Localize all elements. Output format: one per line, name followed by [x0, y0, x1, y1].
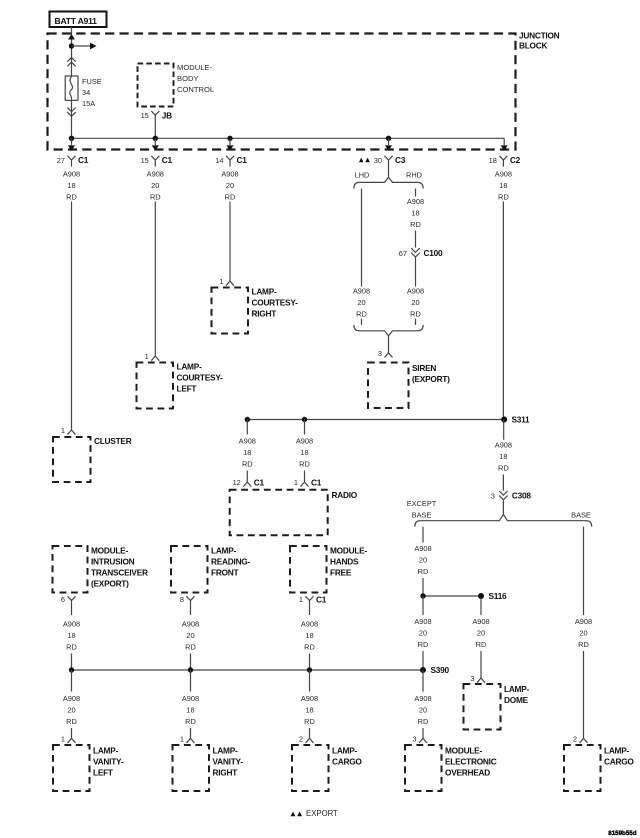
- svg-text:C1: C1: [316, 595, 327, 605]
- svg-text:S311: S311: [512, 415, 531, 425]
- svg-text:ELECTRONIC: ELECTRONIC: [445, 757, 497, 767]
- svg-text:RHD: RHD: [406, 171, 422, 180]
- svg-text:BASE: BASE: [571, 510, 591, 519]
- svg-text:18: 18: [300, 448, 308, 457]
- svg-text:RD: RD: [304, 717, 315, 726]
- svg-text:RD: RD: [66, 717, 77, 726]
- svg-text:RD: RD: [476, 640, 487, 649]
- svg-text:LAMP-: LAMP-: [93, 746, 119, 756]
- svg-text:MODULE-: MODULE-: [445, 746, 482, 756]
- svg-text:RD: RD: [418, 567, 429, 576]
- svg-text:LEFT: LEFT: [93, 768, 113, 778]
- svg-text:12: 12: [233, 478, 241, 487]
- svg-text:HANDS: HANDS: [330, 557, 359, 567]
- svg-text:FREE: FREE: [330, 568, 352, 578]
- svg-text:A908: A908: [414, 544, 431, 553]
- svg-text:LAMP-: LAMP-: [252, 287, 278, 297]
- svg-text:18: 18: [67, 181, 75, 190]
- svg-text:A908: A908: [63, 170, 80, 179]
- svg-text:RD: RD: [498, 193, 509, 202]
- svg-text:A908: A908: [414, 694, 431, 703]
- svg-text:RIGHT: RIGHT: [252, 309, 277, 319]
- svg-text:BODY: BODY: [177, 74, 199, 83]
- svg-text:1: 1: [219, 277, 223, 286]
- svg-text:18: 18: [411, 209, 419, 218]
- svg-text:A908: A908: [63, 694, 80, 703]
- svg-text:2: 2: [299, 735, 303, 744]
- svg-text:3: 3: [412, 735, 416, 744]
- svg-text:C1: C1: [78, 155, 89, 165]
- svg-text:1: 1: [299, 595, 303, 604]
- svg-text:20: 20: [411, 298, 419, 307]
- svg-text:CARGO: CARGO: [332, 757, 362, 767]
- svg-text:15: 15: [141, 111, 149, 120]
- svg-text:20: 20: [419, 706, 427, 715]
- svg-text:COURTESY-: COURTESY-: [177, 373, 224, 383]
- svg-text:A908: A908: [495, 441, 512, 450]
- svg-text:RIGHT: RIGHT: [213, 768, 238, 778]
- svg-text:A908: A908: [495, 170, 512, 179]
- svg-text:15A: 15A: [82, 99, 95, 108]
- svg-text:TRANSCEIVER: TRANSCEIVER: [91, 568, 148, 578]
- svg-text:OVERHEAD: OVERHEAD: [445, 768, 490, 778]
- svg-text:A908: A908: [182, 694, 199, 703]
- svg-text:A908: A908: [239, 437, 256, 446]
- svg-text:MODULE-: MODULE-: [177, 63, 212, 72]
- svg-text:FRONT: FRONT: [211, 568, 239, 578]
- svg-text:8: 8: [180, 595, 184, 604]
- svg-text:A908: A908: [472, 617, 489, 626]
- svg-text:30: 30: [374, 156, 382, 165]
- svg-text:S390: S390: [431, 665, 450, 675]
- svg-text:1: 1: [294, 478, 298, 487]
- svg-text:1: 1: [145, 352, 149, 361]
- svg-text:15: 15: [141, 156, 149, 165]
- svg-text:VANITY-: VANITY-: [93, 757, 124, 767]
- svg-text:(EXPORT): (EXPORT): [91, 579, 129, 589]
- svg-text:MODULE-: MODULE-: [330, 546, 367, 556]
- svg-text:EXPORT: EXPORT: [306, 809, 338, 818]
- svg-text:LAMP-: LAMP-: [211, 546, 237, 556]
- svg-text:RD: RD: [225, 193, 236, 202]
- svg-text:EXCEPT: EXCEPT: [407, 499, 437, 508]
- svg-text:S116: S116: [489, 591, 508, 601]
- svg-text:1: 1: [180, 735, 184, 744]
- svg-text:18: 18: [489, 156, 497, 165]
- svg-text:READING-: READING-: [211, 557, 251, 567]
- svg-text:RD: RD: [185, 643, 196, 652]
- svg-text:18: 18: [305, 631, 313, 640]
- svg-text:VANITY-: VANITY-: [213, 757, 244, 767]
- svg-text:C308: C308: [512, 491, 531, 501]
- svg-text:RD: RD: [418, 717, 429, 726]
- svg-text:RD: RD: [356, 310, 367, 319]
- svg-text:C1: C1: [311, 477, 322, 487]
- svg-text:A908: A908: [221, 170, 238, 179]
- svg-text:A908: A908: [147, 170, 164, 179]
- svg-text:A908: A908: [301, 620, 318, 629]
- svg-text:18: 18: [243, 448, 251, 457]
- svg-text:RD: RD: [242, 460, 253, 469]
- svg-text:JB: JB: [162, 110, 172, 120]
- svg-text:18: 18: [499, 181, 507, 190]
- svg-text:20: 20: [226, 181, 234, 190]
- svg-text:A908: A908: [301, 694, 318, 703]
- svg-text:A908: A908: [575, 617, 592, 626]
- svg-text:RD: RD: [150, 193, 161, 202]
- svg-text:SIREN: SIREN: [412, 363, 436, 373]
- svg-text:LAMP-: LAMP-: [604, 746, 630, 756]
- svg-text:C3: C3: [395, 155, 406, 165]
- svg-text:RD: RD: [304, 643, 315, 652]
- svg-text:RD: RD: [418, 640, 429, 649]
- svg-text:20: 20: [151, 181, 159, 190]
- svg-text:RD: RD: [66, 643, 77, 652]
- svg-text:RD: RD: [185, 717, 196, 726]
- svg-text:8159b55d: 8159b55d: [608, 830, 636, 837]
- svg-text:CONTROL: CONTROL: [177, 85, 214, 94]
- svg-text:LAMP-: LAMP-: [504, 684, 530, 694]
- svg-text:BATT A911: BATT A911: [55, 16, 98, 26]
- svg-text:27: 27: [57, 156, 65, 165]
- svg-text:34: 34: [82, 88, 90, 97]
- svg-text:6: 6: [61, 595, 65, 604]
- svg-text:RD: RD: [410, 310, 421, 319]
- svg-text:20: 20: [67, 706, 75, 715]
- svg-text:RD: RD: [66, 193, 77, 202]
- svg-text:INTRUSION: INTRUSION: [91, 557, 135, 567]
- svg-text:RD: RD: [498, 464, 509, 473]
- svg-text:20: 20: [419, 629, 427, 638]
- svg-text:RD: RD: [410, 220, 421, 229]
- svg-text:3: 3: [491, 491, 495, 500]
- svg-text:MODULE-: MODULE-: [91, 546, 128, 556]
- svg-text:LAMP-: LAMP-: [213, 746, 239, 756]
- svg-text:RD: RD: [299, 460, 310, 469]
- svg-text:C2: C2: [510, 155, 521, 165]
- svg-text:1: 1: [61, 426, 65, 435]
- svg-text:67: 67: [399, 249, 407, 258]
- svg-text:FUSE: FUSE: [82, 77, 102, 86]
- svg-text:18: 18: [499, 452, 507, 461]
- svg-text:A908: A908: [407, 197, 424, 206]
- svg-text:COURTESY-: COURTESY-: [252, 298, 299, 308]
- svg-text:20: 20: [419, 556, 427, 565]
- svg-text:3: 3: [470, 674, 474, 683]
- svg-text:A908: A908: [353, 287, 370, 296]
- svg-text:A908: A908: [407, 287, 424, 296]
- svg-text:CLUSTER: CLUSTER: [94, 436, 132, 446]
- svg-text:BLOCK: BLOCK: [519, 41, 548, 51]
- svg-text:A908: A908: [63, 620, 80, 629]
- svg-text:20: 20: [579, 629, 587, 638]
- svg-text:14: 14: [215, 156, 223, 165]
- svg-text:20: 20: [477, 629, 485, 638]
- svg-text:RADIO: RADIO: [332, 490, 358, 500]
- svg-text:C1: C1: [162, 155, 173, 165]
- svg-text:CARGO: CARGO: [604, 757, 634, 767]
- svg-text:JUNCTION: JUNCTION: [519, 31, 560, 41]
- svg-text:18: 18: [186, 706, 194, 715]
- svg-text:3: 3: [378, 349, 382, 358]
- svg-text:18: 18: [67, 631, 75, 640]
- svg-text:20: 20: [186, 631, 194, 640]
- svg-text:C100: C100: [424, 248, 443, 258]
- svg-text:C1: C1: [237, 155, 248, 165]
- svg-text:RD: RD: [578, 640, 589, 649]
- svg-text:DOME: DOME: [504, 695, 529, 705]
- svg-text:2: 2: [573, 735, 577, 744]
- svg-text:LEFT: LEFT: [177, 384, 197, 394]
- svg-text:(EXPORT): (EXPORT): [412, 374, 450, 384]
- svg-text:18: 18: [305, 706, 313, 715]
- svg-text:LHD: LHD: [355, 171, 370, 180]
- svg-text:20: 20: [357, 298, 365, 307]
- svg-text:LAMP-: LAMP-: [332, 746, 358, 756]
- svg-text:A908: A908: [182, 620, 199, 629]
- svg-text:A908: A908: [414, 617, 431, 626]
- svg-text:C1: C1: [254, 477, 265, 487]
- svg-text:1: 1: [61, 735, 65, 744]
- svg-text:A908: A908: [296, 437, 313, 446]
- svg-text:LAMP-: LAMP-: [177, 362, 203, 372]
- svg-text:BASE: BASE: [412, 510, 432, 519]
